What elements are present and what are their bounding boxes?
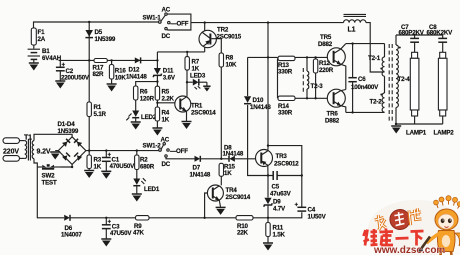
label SW2 TEST — [42, 173, 57, 187]
label TR6 D882 — [325, 111, 340, 125]
svg-text:D12: D12 — [129, 67, 141, 74]
switch SW2 — [37, 164, 60, 170]
zener D11 — [153, 68, 161, 86]
svg-text:1N5399: 1N5399 — [58, 128, 79, 135]
svg-text:D10: D10 — [253, 97, 265, 104]
capacitor C7 — [410, 35, 419, 52]
svg-text:2200U50V: 2200U50V — [61, 75, 90, 82]
wire: R6 branch — [136, 82, 158, 86]
label C2 2200U50V — [61, 68, 90, 82]
watermark: find-chip text — [374, 207, 423, 233]
transistor TR3 — [256, 150, 273, 176]
watermark halo — [368, 200, 460, 255]
resistor R9 — [136, 216, 150, 220]
svg-text:R8: R8 — [226, 55, 234, 62]
label C1 470U50V — [110, 157, 136, 171]
wire: TR6 base — [295, 97, 328, 99]
svg-text:47K: 47K — [133, 230, 145, 237]
svg-text:LED1: LED1 — [144, 186, 160, 193]
wire: D10 branch — [248, 57, 302, 175]
svg-text:2SC9015: 2SC9015 — [217, 34, 242, 41]
svg-text:220R: 220R — [319, 67, 334, 74]
label D12 1N4148 — [126, 67, 147, 81]
LED3 — [187, 79, 207, 90]
wire: primary bottom — [346, 111, 385, 113]
ground at lamp rail — [391, 126, 401, 134]
ground below R4 — [152, 128, 162, 136]
svg-text:DC: DC — [162, 161, 171, 168]
phase dot T2-4 — [399, 47, 401, 49]
ground below C3 — [101, 239, 111, 247]
label TR2 2SC9015 — [217, 27, 242, 41]
wire: rail drop to TR3 collector — [268, 23, 302, 207]
wire: top supply rail — [34, 22, 385, 72]
svg-text:5.1R: 5.1R — [94, 111, 107, 118]
label R12 220R — [319, 60, 334, 74]
svg-text:1K: 1K — [162, 117, 170, 124]
label C7 680P2KV — [399, 24, 425, 37]
ground below TR4 — [216, 207, 226, 215]
label R4 1K — [162, 110, 170, 124]
resistor R1 — [87, 60, 91, 150]
ground below LED1 — [132, 194, 142, 202]
label C3 47U50V — [110, 224, 132, 238]
svg-text:2SC9014: 2SC9014 — [226, 194, 251, 201]
wire: lamp bottom rail — [396, 123, 443, 125]
svg-text:47u63V: 47u63V — [270, 190, 292, 197]
svg-text:D11: D11 — [163, 68, 174, 75]
label R17 82R — [93, 65, 105, 79]
ground below R11 — [263, 243, 273, 251]
svg-text:R4: R4 — [162, 110, 170, 117]
ground below R3 — [84, 171, 94, 179]
svg-text:47U50V: 47U50V — [110, 230, 132, 237]
label R2 680R — [140, 157, 155, 171]
capacitor C4 — [295, 202, 307, 212]
LED1 — [133, 178, 146, 193]
svg-text:TR3: TR3 — [276, 153, 288, 160]
label B1 6V4AH — [42, 48, 62, 62]
svg-text:2.2K: 2.2K — [162, 96, 175, 103]
ground below TR1 — [182, 122, 192, 130]
label F1 2A — [38, 29, 46, 43]
label R3 1K — [94, 157, 102, 171]
capacitor C5 — [273, 171, 277, 180]
wire: TR5 base — [295, 57, 328, 58]
svg-text:R3: R3 — [94, 157, 102, 164]
label R15 1K — [224, 164, 236, 178]
capacitor C8 — [438, 35, 447, 52]
svg-text:L1: L1 — [348, 27, 356, 34]
label R11 1.5K — [273, 225, 286, 239]
label C4 1U50V — [308, 207, 327, 221]
svg-text:82R: 82R — [93, 71, 105, 78]
diode D5 — [85, 22, 93, 60]
resistor R2 — [135, 151, 139, 179]
resistor R3 — [87, 151, 91, 170]
transistor TR4 — [205, 176, 224, 218]
svg-text:100n400V: 100n400V — [351, 84, 379, 91]
svg-text:1N4148: 1N4148 — [223, 150, 244, 157]
transistor TR2 — [199, 23, 221, 53]
capacitor C6 — [348, 44, 356, 113]
resistor R8 — [219, 53, 223, 159]
svg-text:R5: R5 — [162, 89, 170, 96]
label D6 1N4007 — [61, 225, 82, 239]
switch SW1-1 — [159, 13, 192, 30]
svg-text:D882: D882 — [325, 117, 340, 124]
capacitor C2 — [56, 60, 66, 80]
svg-text:SW2: SW2 — [42, 173, 56, 180]
ground below B1 — [29, 63, 39, 71]
label D1-D4 1N5399 — [58, 121, 79, 135]
svg-text:SW1-1: SW1-1 — [143, 15, 162, 22]
lamp LAMP2 — [438, 52, 447, 124]
inductor L1 — [344, 14, 367, 22]
label R5 2.2K — [162, 89, 175, 103]
svg-text:1K: 1K — [224, 170, 232, 177]
label C6 100n400V — [351, 76, 379, 91]
svg-text:LED2: LED2 — [141, 114, 157, 121]
svg-text:3.6V: 3.6V — [163, 75, 176, 82]
transformer T2 primary winding T2-1 — [382, 44, 384, 93]
plug prong lower — [3, 156, 25, 162]
svg-text:R16: R16 — [115, 68, 127, 75]
svg-text:AC: AC — [161, 137, 170, 144]
diode D10 — [244, 96, 251, 103]
svg-text:LAMP1: LAMP1 — [406, 130, 427, 137]
label D7 1N4148 — [190, 165, 211, 179]
svg-text:F1: F1 — [38, 29, 46, 36]
svg-text:TR4: TR4 — [226, 187, 238, 194]
resistor R6 — [134, 86, 138, 111]
svg-text:B1: B1 — [42, 48, 50, 55]
ground below LED2 — [131, 122, 141, 130]
svg-text:T2-2: T2-2 — [370, 99, 383, 106]
wire: bottom charge rail — [37, 167, 302, 218]
wire: TR2 collector node — [157, 52, 204, 68]
bridge rectifier D1-D4 — [58, 137, 89, 167]
ground below C2 — [55, 81, 65, 89]
svg-text:4.7V: 4.7V — [273, 206, 286, 213]
label D9 4.7V — [273, 199, 286, 213]
svg-text:1N4007: 1N4007 — [61, 232, 82, 239]
label TR5 D882 — [318, 34, 333, 48]
phase dot T2-1 — [380, 68, 382, 70]
svg-text:330R: 330R — [278, 110, 293, 117]
transistor TR5 — [327, 44, 346, 90]
svg-text:www.dzsc.com: www.dzsc.com — [373, 245, 445, 255]
svg-text:R1: R1 — [94, 104, 102, 111]
svg-text:1K: 1K — [94, 164, 102, 171]
resistor R12 — [313, 57, 317, 98]
svg-text:AC: AC — [162, 7, 171, 14]
svg-text:2SC9014: 2SC9014 — [191, 110, 216, 117]
watermark: weiku red text — [364, 229, 424, 246]
svg-text:680R: 680R — [140, 164, 155, 171]
label TR4 2SC9014 — [226, 187, 251, 201]
watermark: mascot — [418, 196, 460, 255]
label C5 47u63V — [270, 184, 292, 198]
svg-text:330R: 330R — [278, 69, 293, 76]
wire: TR1 collector — [186, 70, 188, 96]
svg-text:2SC9012: 2SC9012 — [274, 161, 299, 168]
diode D8 — [221, 156, 255, 162]
wire: C2/R17 node — [59, 59, 158, 61]
label R9 47K — [133, 223, 145, 237]
svg-text:1N4148: 1N4148 — [126, 74, 147, 81]
lamp LAMP1 — [410, 52, 419, 124]
resistor R16 — [109, 60, 113, 83]
svg-text:SW1-2: SW1-2 — [143, 143, 162, 150]
svg-text:680K2KV: 680K2KV — [427, 30, 454, 37]
transformer T1 — [25, 134, 72, 167]
svg-text:470U50V: 470U50V — [110, 163, 136, 170]
svg-text:R2: R2 — [140, 157, 148, 164]
transformer T2 secondary winding T2-4 — [396, 35, 398, 124]
svg-text:D9: D9 — [273, 199, 281, 206]
resistor R10 — [236, 216, 253, 220]
label R6 120R — [140, 89, 155, 103]
svg-text:TEST: TEST — [42, 180, 57, 187]
svg-text:TR2: TR2 — [217, 27, 229, 34]
LED2 — [126, 111, 139, 122]
label R13 330R — [278, 62, 293, 76]
label R10 22K — [237, 223, 249, 237]
svg-text:120R: 120R — [140, 96, 155, 103]
svg-text:1N4148: 1N4148 — [190, 172, 211, 179]
svg-text:R7: R7 — [192, 59, 200, 66]
svg-text:TR1: TR1 — [191, 103, 203, 110]
switch SW1-2 — [89, 143, 194, 159]
label TR1 2SC9014 — [191, 103, 216, 117]
svg-text:+: + — [295, 202, 299, 209]
transformer winding T2-3 — [303, 57, 309, 98]
zener D9 — [264, 176, 272, 218]
svg-text:DC: DC — [162, 33, 171, 40]
svg-text:10K: 10K — [115, 75, 127, 82]
svg-text:T2-3: T2-3 — [311, 83, 324, 90]
resistor R7 — [185, 52, 189, 70]
fuse F1 — [31, 28, 36, 49]
svg-text:1N5399: 1N5399 — [95, 36, 116, 43]
wire: lamp top rail — [396, 34, 443, 36]
label D8 1N4148 — [223, 145, 244, 158]
resistor R5 — [155, 86, 159, 100]
ground below R16 — [107, 84, 117, 92]
svg-text:C4: C4 — [308, 207, 316, 214]
resistor R11 — [266, 218, 270, 243]
label R14 330R — [278, 103, 293, 117]
svg-text:—OFF: —OFF — [170, 148, 188, 155]
label D10 1N4148 — [250, 97, 271, 111]
battery B1 — [28, 49, 40, 62]
transformer T2 primary winding T2-2 — [382, 93, 384, 112]
phase dot T2-2 — [380, 94, 382, 96]
resistor R4 — [155, 107, 159, 128]
svg-text:T2-4: T2-4 — [398, 76, 411, 83]
svg-text:—OFF: —OFF — [171, 21, 189, 28]
svg-text:22K: 22K — [237, 230, 249, 237]
ground at LED3 — [203, 82, 210, 91]
resistor R13 — [278, 56, 295, 60]
svg-text:10K: 10K — [226, 62, 238, 69]
svg-text:2A: 2A — [38, 36, 46, 43]
label D5 1N5399 — [95, 29, 116, 43]
svg-text:9.2V: 9.2V — [37, 149, 51, 156]
label R1 5.1R — [94, 104, 107, 118]
svg-text:R11: R11 — [273, 225, 284, 232]
label R16 10K — [115, 68, 127, 82]
svg-text:LED3: LED3 — [190, 73, 206, 80]
svg-text:220V: 220V — [3, 149, 19, 156]
svg-text:C6: C6 — [358, 76, 366, 83]
transistor TR1 — [175, 96, 191, 121]
label TR3 2SC9012 — [274, 153, 299, 168]
label R8 10K — [226, 55, 238, 69]
wire: primary top — [346, 43, 385, 45]
T2 core — [389, 44, 392, 122]
diode D12 — [135, 57, 141, 63]
svg-text:1U50V: 1U50V — [308, 214, 327, 221]
svg-text:T1: T1 — [24, 135, 32, 142]
svg-text:LAMP2: LAMP2 — [434, 130, 455, 137]
svg-text:T2-1: T2-1 — [368, 55, 381, 62]
resistor R15 — [219, 163, 223, 176]
svg-text:R6: R6 — [140, 89, 148, 96]
diode D7 — [195, 156, 222, 162]
resistor R14 — [278, 96, 295, 100]
svg-text:1K: 1K — [192, 66, 200, 73]
wire: TR1 base node — [157, 100, 175, 107]
plug prong upper — [3, 138, 25, 144]
resistor R17 — [94, 59, 107, 63]
transistor TR6 — [327, 89, 346, 112]
label D11 3.6V — [163, 68, 176, 82]
capacitor C1 — [102, 151, 112, 171]
label R7 1K — [192, 59, 200, 73]
svg-text:D7: D7 — [193, 165, 201, 172]
capacitor C3 — [102, 218, 112, 239]
svg-text:D882: D882 — [318, 41, 333, 48]
ground at bridge minus — [50, 151, 60, 160]
label C8 680K2KV — [427, 24, 454, 37]
svg-text:680P2KV: 680P2KV — [399, 30, 425, 37]
diode D6 — [64, 215, 73, 221]
wire: R13/R14 feed node — [248, 57, 278, 98]
svg-text:1.5K: 1.5K — [273, 232, 286, 239]
svg-text:D5: D5 — [95, 29, 103, 36]
ground below C1 — [101, 171, 111, 179]
